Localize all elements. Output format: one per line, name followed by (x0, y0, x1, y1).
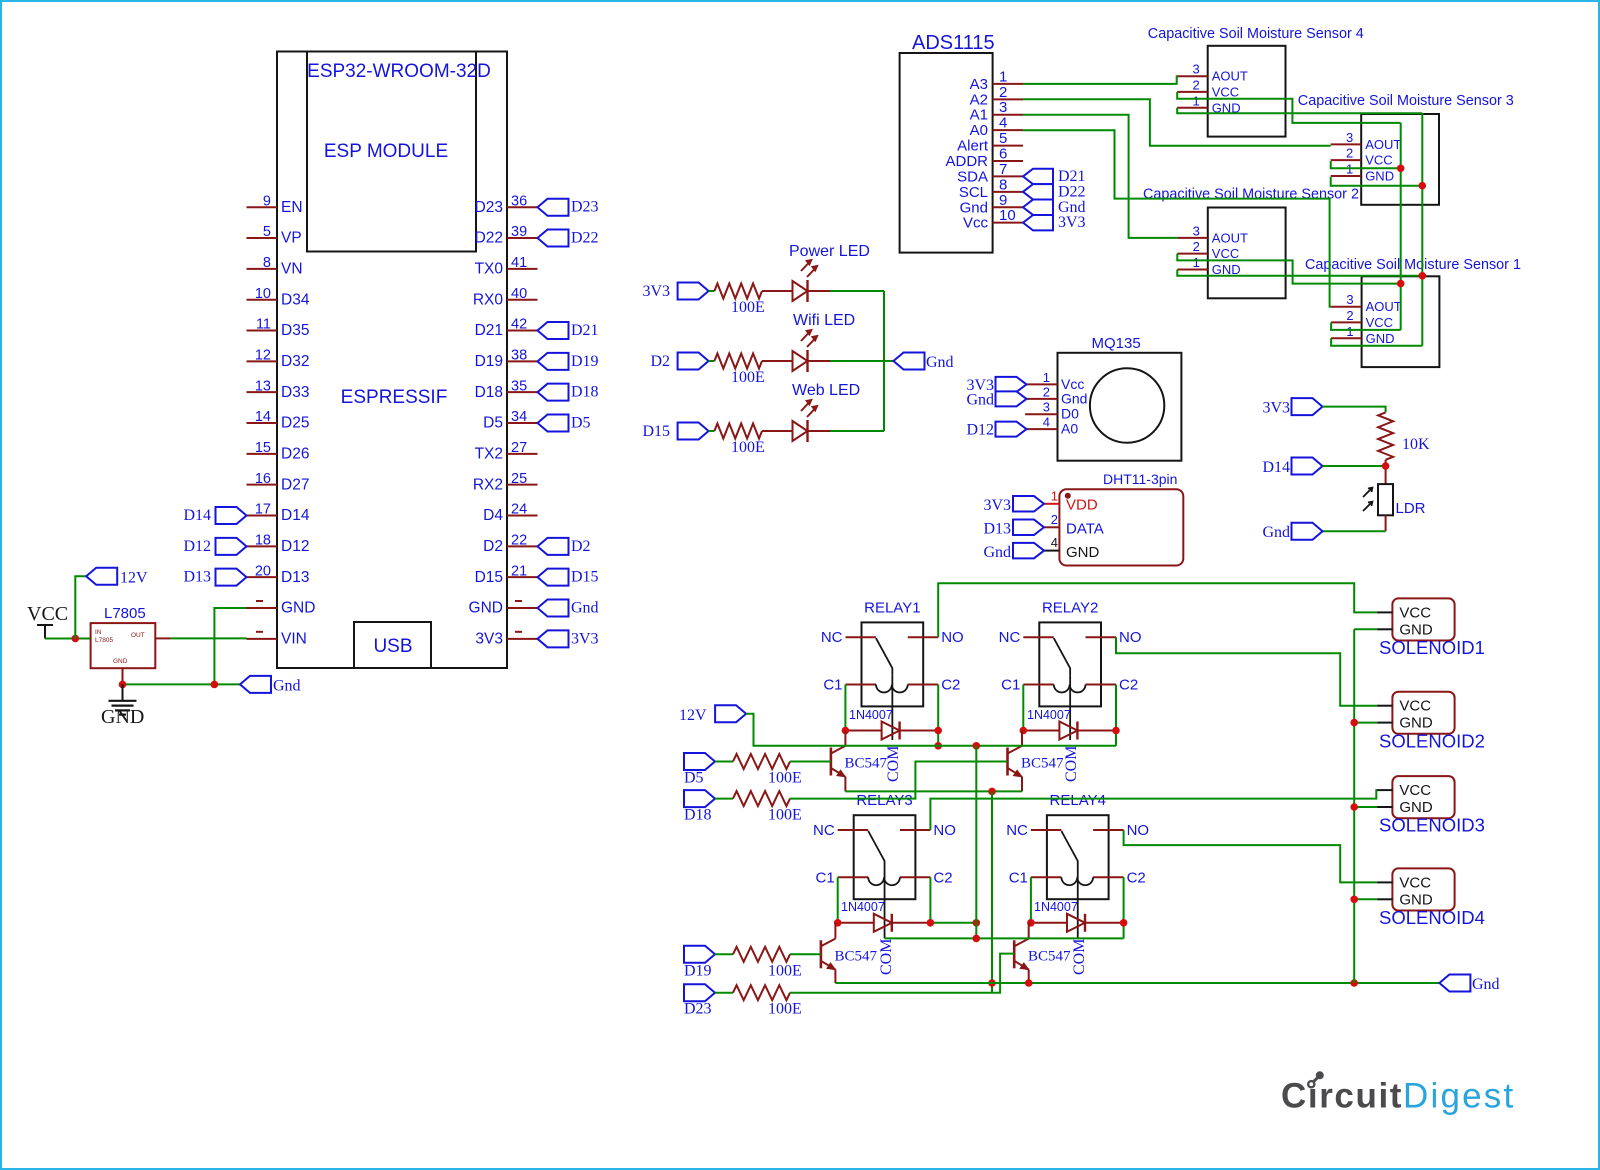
ADS1115 pin 6 ADDR (945, 146, 1023, 171)
wire RELAY1 C1 down (844, 685, 846, 731)
junction divider node (1382, 462, 1390, 470)
LED Power LED (762, 259, 830, 302)
Q3 collector wire (834, 923, 836, 939)
svg-text:D32: D32 (281, 353, 309, 370)
wire 3V3 to resistor (709, 290, 715, 292)
svg-text:100E: 100E (731, 439, 765, 456)
svg-text:2: 2 (1346, 146, 1353, 161)
svg-text:20: 20 (255, 563, 271, 579)
svg-text:IN: IN (95, 629, 102, 636)
svg-text:D18: D18 (684, 807, 712, 824)
net flag 3V3 at ESP32 right (538, 630, 599, 647)
net flag D23 at ESP32 right (538, 199, 599, 216)
svg-text:RELAY4: RELAY4 (1050, 792, 1106, 809)
RELAY2 pin C2 (1086, 677, 1139, 694)
svg-text:C1: C1 (823, 677, 842, 694)
svg-text:16: 16 (255, 471, 271, 487)
net flag Gnd at ADS1115 (1023, 199, 1086, 216)
wire A3 to sensor4 AOUT (1023, 76, 1177, 84)
ESP32 right pin 22 D2 (483, 533, 537, 556)
svg-text:12V: 12V (679, 707, 707, 724)
LED Web LED (762, 399, 830, 442)
svg-text:Gnd: Gnd (1061, 390, 1087, 406)
junction GND-flag node (211, 681, 219, 689)
svg-text:Capacitive Soil Moisture Senso: Capacitive Soil Moisture Sensor 2 (1143, 187, 1359, 203)
ADS1115 pin 5 Alert (957, 130, 1023, 155)
svg-text:SOLENOID4: SOLENOID4 (1379, 907, 1485, 928)
junction D3 cathode (927, 919, 935, 927)
label COM at RELAY2 (1063, 746, 1080, 782)
transistor Q2 BC547 (1008, 746, 1065, 777)
net flag Gnd at ground rail (1439, 975, 1499, 994)
net flag D13 at ESP32 left (183, 569, 246, 586)
svg-text:3: 3 (1043, 400, 1050, 415)
SOLENOID4 pin VCC (1377, 874, 1431, 891)
ESP32 right pin 40 RX0 (473, 286, 538, 309)
sensor 2 pin 3 AOUT (1177, 223, 1248, 245)
transistor Q1 BC547 (831, 746, 888, 777)
sensor 1 pin 2 VCC (1331, 308, 1393, 330)
DHT11 pin1 marker dot (1065, 493, 1071, 499)
svg-text:RELAY1: RELAY1 (864, 599, 920, 616)
resistor 100E for D18 (733, 791, 802, 824)
SOLENOID2 pin VCC (1377, 698, 1431, 715)
label COM at RELAY3 (878, 939, 895, 975)
svg-text:D5: D5 (684, 770, 704, 787)
svg-text:100E: 100E (731, 299, 765, 316)
net flag Gnd at L7805 (240, 676, 301, 695)
wire SOLENOID2 GND link (1354, 722, 1377, 724)
svg-text:D14: D14 (1262, 459, 1290, 476)
net flag 3V3 at MQ135 (966, 377, 1026, 394)
wire VCC to L7805 IN (45, 638, 91, 640)
svg-text:VCC: VCC (1399, 698, 1431, 715)
Q3 emitter wire (834, 970, 836, 983)
RELAY3 pin NC (813, 822, 868, 839)
junction SOLENOID3 GND (1350, 803, 1358, 811)
DHT11 pin 1 VDD (1044, 489, 1098, 514)
RELAY1 pin NO (908, 629, 964, 646)
MQ135 pin 4 A0 (1025, 415, 1078, 437)
svg-text:3: 3 (1346, 130, 1353, 145)
ESP32 left pin 11 D35 (247, 317, 310, 340)
net flag 3V3 at ADS1115 (1023, 214, 1086, 231)
wire LDR to Gnd (1385, 515, 1387, 531)
svg-text:BC547: BC547 (835, 948, 878, 964)
ADS1115 pin 8 SCL (959, 176, 1023, 201)
svg-text:NC: NC (999, 629, 1021, 646)
svg-text:SOLENOID2: SOLENOID2 (1379, 730, 1485, 751)
ESP32 inner shield box (307, 52, 476, 252)
ADS1115 pin 9 Gnd (960, 192, 1023, 217)
svg-text:27: 27 (511, 440, 527, 456)
wire sensor1 VCC hook (1331, 322, 1401, 330)
svg-text:C1: C1 (1009, 869, 1028, 886)
DHT11 pin 2 DATA (1044, 512, 1104, 538)
svg-text:TX0: TX0 (475, 261, 504, 278)
RELAY2 switch lever (1054, 638, 1070, 675)
ADS1115 pin 3 A1 (970, 99, 1023, 124)
svg-text:AOUT: AOUT (1366, 299, 1402, 314)
svg-text:AOUT: AOUT (1212, 69, 1248, 84)
junction D3 anode (834, 919, 842, 927)
svg-text:D26: D26 (281, 446, 309, 463)
svg-text:13: 13 (255, 378, 271, 394)
net flag D21 at ADS1115 (1023, 168, 1086, 185)
svg-text:2: 2 (1193, 239, 1200, 254)
wire 12V rail (746, 714, 1116, 746)
RELAY1 COM stub (891, 706, 893, 740)
svg-text:L7805: L7805 (104, 605, 146, 622)
junction sensor2 GND bus (1419, 272, 1427, 280)
wire L7805 OUT to ESP VIN (171, 637, 247, 639)
svg-text:ADS1115: ADS1115 (912, 32, 995, 54)
wire COM tie relay3 relay4 (885, 937, 1124, 939)
svg-text:SOLENOID3: SOLENOID3 (1379, 815, 1485, 836)
wire RELAY2 C2 down (1115, 685, 1117, 746)
Q2 collector wire (1021, 731, 1023, 746)
svg-text:D19: D19 (475, 353, 503, 370)
RELAY3 COM stub (884, 899, 886, 938)
svg-text:Gnd: Gnd (1472, 976, 1500, 993)
svg-text:RELAY2: RELAY2 (1042, 599, 1098, 616)
wire ground rail (835, 982, 1439, 984)
RELAY2 pin NO (1086, 629, 1142, 646)
L7805 GND pin (122, 668, 124, 684)
transistor Q3 BC547 (821, 939, 878, 970)
svg-text:2: 2 (1051, 512, 1058, 527)
svg-text:D15: D15 (571, 569, 599, 586)
svg-text:39: 39 (511, 224, 527, 240)
net flag Gnd at LDR (1262, 523, 1322, 541)
junction ground rail tap (988, 979, 996, 987)
svg-text:ESP32-WROOM-32D: ESP32-WROOM-32D (307, 61, 491, 82)
svg-text:D13: D13 (983, 521, 1011, 538)
wire RELAY4 C2 down (1123, 877, 1125, 938)
RELAY1 coil (876, 685, 908, 693)
svg-text:1: 1 (1193, 255, 1200, 270)
svg-text:D19: D19 (684, 962, 712, 979)
svg-text:17: 17 (255, 502, 271, 518)
svg-text:D13: D13 (183, 569, 211, 586)
svg-text:2: 2 (1192, 77, 1199, 92)
DHT11 pin 4 GND (1044, 535, 1100, 561)
wire SOLENOID3 GND link (1354, 806, 1377, 808)
net flag D21 at ESP32 right (538, 322, 599, 339)
ESP32 right pin 35 D18 (475, 378, 538, 401)
wire RELAY2 NO to SOLENOID2 VCC (1116, 637, 1377, 706)
svg-text:D5: D5 (483, 415, 503, 432)
svg-text:2: 2 (1043, 384, 1050, 399)
wire D3 cathode extension (930, 922, 976, 924)
svg-text:D12: D12 (966, 422, 994, 439)
net flag 3V3 at LDR divider (1262, 398, 1322, 416)
wire to Gnd flag (884, 360, 894, 362)
ESP32 right pin 25 RX2 (473, 471, 538, 494)
svg-text:D18: D18 (571, 384, 599, 401)
wire 3V3 to resistor 10K (1323, 407, 1386, 413)
wire SOLENOID1 GND link (1354, 628, 1377, 630)
svg-text:GND: GND (1399, 715, 1433, 732)
relay RELAY4 outline (1047, 815, 1109, 899)
wire D15 to resistor (709, 430, 715, 432)
svg-text:L7805: L7805 (95, 637, 113, 644)
svg-text:VDD: VDD (1066, 497, 1098, 514)
resistor 100E for D19 (733, 947, 802, 980)
net flag D22 at ADS1115 (1023, 183, 1086, 200)
svg-text:BC547: BC547 (1021, 756, 1064, 772)
svg-text:1: 1 (1192, 93, 1199, 108)
wire RELAY3 C1 down (837, 877, 839, 923)
svg-text:42: 42 (511, 317, 527, 333)
resistor R 10K (1378, 412, 1430, 459)
svg-text:3V3: 3V3 (1058, 214, 1086, 231)
ground symbol GND (101, 684, 144, 728)
svg-text:D18: D18 (475, 384, 503, 401)
svg-text:TX2: TX2 (475, 446, 503, 463)
svg-text:NO: NO (941, 629, 964, 646)
net flag D15 at ESP32 right (538, 569, 599, 586)
RELAY1 pin NC (821, 629, 876, 646)
MQ135 pin 2 Gnd (1025, 384, 1087, 406)
net flag D13 at DHT11 (983, 520, 1044, 538)
svg-text:C2: C2 (941, 677, 960, 694)
svg-text:D25: D25 (281, 415, 309, 432)
svg-text:D12: D12 (281, 538, 309, 555)
wire D18 to resistor (715, 798, 733, 800)
SOLENOID4 pin GND (1377, 891, 1433, 908)
junction SOLENOID2 GND (1350, 719, 1358, 727)
svg-text:GND: GND (1399, 621, 1433, 638)
ESP32 left pin - VIN (247, 631, 307, 648)
LED Wifi LED (762, 329, 830, 372)
svg-text:Gnd: Gnd (983, 544, 1011, 561)
net flag 3V3 at DHT11 (983, 496, 1044, 514)
svg-text:D4: D4 (483, 507, 503, 524)
net flag 3V3 at Power LED (642, 283, 708, 301)
RELAY4 pin COM (1077, 868, 1079, 899)
SOLENOID3 pin VCC (1377, 782, 1431, 799)
sensor 3 pin 3 AOUT (1331, 130, 1402, 152)
wire Web LED cathode (830, 430, 884, 432)
net flag D18 at ESP32 right (538, 384, 599, 401)
svg-text:GND: GND (1399, 799, 1433, 816)
RELAY4 COM stub (1077, 899, 1079, 938)
svg-text:14: 14 (255, 409, 271, 425)
svg-text:COM: COM (1063, 746, 1080, 782)
label COM at RELAY1 (885, 746, 902, 782)
junction C2 12V rail (934, 742, 942, 750)
svg-text:C1: C1 (816, 869, 835, 886)
svg-text:8: 8 (263, 255, 271, 271)
svg-text:9: 9 (263, 193, 271, 209)
wire sensor1 GND hook (1331, 338, 1422, 345)
svg-text:DHT11-3pin: DHT11-3pin (1103, 471, 1177, 487)
Q1 emitter wire (844, 777, 846, 792)
ESP32 right pin - 3V3 (475, 631, 537, 648)
wire D23 to resistor (715, 992, 733, 994)
net flag D2 at ESP32 right (538, 538, 591, 555)
net flag D5 at ESP32 right (538, 415, 591, 432)
svg-text:C1: C1 (1001, 677, 1020, 694)
RELAY2 pin NC (999, 629, 1054, 646)
sensor 2 pin 2 VCC (1177, 239, 1239, 261)
svg-text:COM: COM (878, 939, 895, 975)
svg-text:D5: D5 (571, 415, 591, 432)
actuator SOLENOID4 outline (1392, 868, 1454, 910)
ESP32 right pin 24 D4 (483, 502, 537, 525)
svg-text:RX2: RX2 (473, 476, 503, 493)
junction D4 anode (1027, 919, 1035, 927)
sensor 4 pin 1 GND (1177, 93, 1240, 115)
ESP32 right pin 36 D23 (475, 193, 538, 216)
resistor 100E for Web LED (714, 424, 764, 457)
svg-text:GND: GND (1066, 544, 1100, 561)
junction VCC-12V node (72, 635, 80, 643)
ESP32 left pin 18 D12 (247, 533, 310, 556)
svg-text:4: 4 (1051, 535, 1058, 550)
svg-text:NO: NO (1127, 822, 1150, 839)
net flag D5 at relay driver (684, 753, 715, 787)
diode D3 1N4007 (838, 900, 931, 932)
power symbol VCC (27, 603, 68, 639)
photoresistor LDR (1363, 484, 1426, 517)
svg-text:BC547: BC547 (1028, 948, 1071, 964)
relay RELAY3 outline (854, 815, 916, 899)
junction COM tie (973, 935, 981, 943)
svg-text:D33: D33 (281, 384, 309, 401)
net flag D12 at ESP32 left (183, 538, 246, 555)
svg-text:1N4007: 1N4007 (1027, 708, 1071, 722)
svg-text:D21: D21 (571, 322, 599, 339)
svg-text:D15: D15 (475, 569, 503, 586)
RELAY3 pin COM (884, 868, 886, 899)
svg-text:VCC: VCC (1366, 315, 1393, 330)
svg-text:22: 22 (511, 533, 527, 549)
wire GND bus vertical (1421, 113, 1423, 346)
sensor 1 pin 1 GND (1331, 324, 1394, 346)
RELAY1 switch lever (876, 638, 892, 675)
wire D19 to resistor (715, 953, 733, 955)
junction SOLENOID4 GND (1350, 896, 1358, 904)
svg-text:Digest: Digest (1403, 1077, 1515, 1116)
RELAY2 coil (1054, 685, 1086, 693)
RELAY2 pin COM (1069, 675, 1071, 706)
resistor 100E for D5 (733, 754, 802, 787)
svg-text:34: 34 (511, 409, 527, 425)
RELAY3 pin C1 (816, 869, 869, 886)
svg-text:10: 10 (255, 286, 271, 302)
svg-text:MQ135: MQ135 (1092, 335, 1141, 352)
svg-text:100E: 100E (768, 807, 802, 824)
svg-text:100E: 100E (731, 369, 765, 386)
wire D23 to Q4 base (790, 954, 1014, 993)
svg-text:VCC: VCC (1212, 84, 1239, 99)
svg-text:AOUT: AOUT (1212, 230, 1248, 245)
wire ESP GND down (214, 608, 246, 684)
RELAY1 pin COM (891, 675, 893, 706)
RELAY4 pin NO (1093, 822, 1149, 839)
diode D1 1N4007 (845, 708, 938, 740)
svg-text:D13: D13 (281, 569, 309, 586)
svg-text:COM: COM (885, 746, 902, 782)
wire RELAY3 NO to SOLENOID3 VCC (930, 790, 1377, 830)
ESP32 left pin - GND (247, 600, 316, 617)
svg-text:Vcc: Vcc (963, 215, 989, 232)
net flag Gnd at LEDs (894, 353, 954, 372)
transistor Q4 BC547 (1014, 939, 1071, 970)
svg-text:NO: NO (933, 822, 956, 839)
IC U1 ESP32 module outline (277, 52, 507, 669)
wire solenoid GND bus (1353, 629, 1355, 983)
svg-text:Gnd: Gnd (273, 678, 301, 695)
wire Q1 Q2 emitter tie (845, 790, 1022, 792)
svg-text:100E: 100E (768, 962, 802, 979)
svg-text:A0: A0 (1061, 421, 1078, 437)
wire RELAY4 NO to SOLENOID4 VCC (1124, 830, 1378, 882)
svg-text:VCC: VCC (1399, 604, 1431, 621)
svg-text:Web LED: Web LED (792, 382, 860, 399)
diode D2 1N4007 (1023, 708, 1116, 740)
svg-text:BC547: BC547 (845, 756, 888, 772)
svg-text:D14: D14 (183, 507, 211, 524)
sensor module Capacitive Soil Moisture Sensor 1 outline (1362, 276, 1440, 367)
svg-text:5: 5 (263, 224, 271, 240)
ESP32 left pin 20 D13 (247, 563, 310, 586)
sensor 2 pin 1 GND (1177, 255, 1240, 277)
svg-text:D15: D15 (642, 423, 670, 440)
sensor 4 pin 3 AOUT (1177, 62, 1248, 84)
svg-text:VP: VP (281, 230, 302, 247)
net flag Gnd at MQ135 (966, 391, 1026, 408)
svg-text:3: 3 (1192, 62, 1199, 77)
svg-text:NC: NC (1006, 822, 1028, 839)
RELAY4 pin C2 (1093, 869, 1146, 886)
MQ135 pin 1 Vcc (1025, 370, 1084, 392)
svg-text:100E: 100E (768, 1001, 802, 1018)
svg-text:C2: C2 (933, 869, 952, 886)
net flag 12V at L7805 (86, 568, 148, 587)
svg-text:D2: D2 (571, 538, 591, 555)
svg-text:OUT: OUT (131, 632, 145, 639)
wire sensor4 GND to GND bus (1177, 108, 1422, 113)
wire ground bus L7805 (123, 683, 241, 685)
actuator SOLENOID3 outline (1392, 776, 1454, 818)
svg-text:Gnd: Gnd (1262, 524, 1290, 541)
svg-text:Gnd: Gnd (926, 354, 954, 371)
svg-text:2: 2 (1346, 308, 1353, 323)
svg-text:VCC: VCC (27, 603, 68, 625)
svg-text:D14: D14 (281, 507, 310, 524)
svg-text:NC: NC (821, 629, 843, 646)
svg-text:C2: C2 (1119, 677, 1138, 694)
svg-text:VIN: VIN (281, 631, 307, 648)
svg-text:GND: GND (113, 658, 128, 665)
junction L7805 GND (119, 681, 127, 689)
wire D2 to resistor (709, 360, 715, 362)
RELAY3 coil (868, 877, 900, 885)
net flag D18 at relay driver (684, 790, 715, 824)
svg-text:Capacitive Soil Moisture Senso: Capacitive Soil Moisture Sensor 1 (1305, 257, 1521, 273)
junction emitter tie (988, 788, 996, 796)
svg-text:NO: NO (1119, 629, 1142, 646)
Q4 collector wire (1028, 923, 1030, 939)
svg-text:Power LED: Power LED (789, 243, 870, 260)
ESP32 right pin 21 D15 (475, 563, 538, 586)
net flag D14 at LDR divider (1262, 458, 1322, 477)
svg-text:D2: D2 (483, 538, 503, 555)
sensor 4 pin 2 VCC (1177, 77, 1239, 99)
